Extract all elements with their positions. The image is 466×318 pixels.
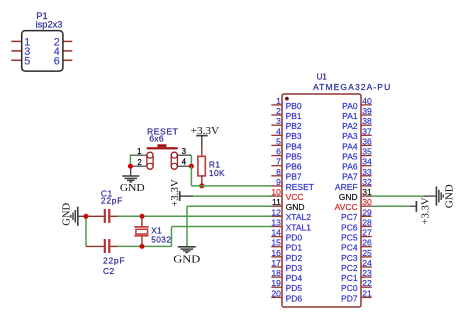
svg-text:16: 16 — [271, 248, 281, 258]
svg-text:PD6: PD6 — [286, 293, 303, 303]
svg-text:PA4: PA4 — [342, 141, 358, 151]
svg-text:PD5: PD5 — [286, 283, 303, 293]
svg-text:22: 22 — [362, 278, 372, 288]
svg-text:PC7: PC7 — [341, 212, 358, 222]
svg-text:PD1: PD1 — [286, 243, 303, 253]
svg-text:AREF: AREF — [335, 182, 358, 192]
svg-text:PA6: PA6 — [342, 162, 358, 172]
svg-text:GND: GND — [445, 184, 456, 209]
svg-text:1: 1 — [276, 96, 281, 106]
svg-text:PC6: PC6 — [341, 222, 358, 232]
svg-text:39: 39 — [362, 106, 372, 116]
svg-text:3: 3 — [276, 116, 281, 126]
svg-text:21: 21 — [362, 288, 372, 298]
svg-text:AVCC: AVCC — [335, 202, 358, 212]
svg-text:10K: 10K — [209, 168, 225, 178]
svg-text:29: 29 — [362, 207, 372, 217]
svg-text:PB1: PB1 — [286, 111, 302, 121]
svg-text:9: 9 — [276, 177, 281, 187]
svg-text:20: 20 — [271, 288, 281, 298]
svg-text:PB5: PB5 — [286, 152, 302, 162]
svg-text:+3.3V: +3.3V — [420, 197, 431, 225]
svg-text:13: 13 — [271, 218, 281, 228]
svg-text:PC2: PC2 — [341, 263, 358, 273]
svg-text:PD7: PD7 — [341, 293, 358, 303]
svg-text:PB7: PB7 — [286, 172, 302, 182]
svg-text:GND: GND — [339, 192, 358, 202]
svg-text:6x6: 6x6 — [149, 133, 164, 143]
svg-text:PD0: PD0 — [286, 233, 303, 243]
svg-text:PC1: PC1 — [341, 273, 358, 283]
svg-text:14: 14 — [271, 228, 281, 238]
svg-text:40: 40 — [362, 96, 372, 106]
svg-text:36: 36 — [362, 136, 372, 146]
svg-text:PB2: PB2 — [286, 121, 302, 131]
svg-text:XTAL1: XTAL1 — [286, 222, 312, 232]
svg-text:18: 18 — [271, 268, 281, 278]
svg-text:2: 2 — [276, 106, 281, 116]
svg-text:28: 28 — [362, 218, 372, 228]
svg-text:PD2: PD2 — [286, 253, 303, 263]
svg-text:38: 38 — [362, 116, 372, 126]
svg-text:ATMEGA32A-PU: ATMEGA32A-PU — [313, 82, 391, 92]
svg-text:33: 33 — [362, 167, 372, 177]
svg-text:2: 2 — [137, 158, 142, 167]
svg-text:22pF: 22pF — [103, 255, 125, 265]
svg-text:+3.3V: +3.3V — [170, 179, 181, 207]
svg-text:5: 5 — [276, 136, 281, 146]
svg-text:31: 31 — [362, 187, 372, 197]
svg-text:PB6: PB6 — [286, 162, 302, 172]
svg-text:GND: GND — [173, 255, 200, 266]
svg-text:XTAL2: XTAL2 — [286, 212, 312, 222]
svg-text:U1: U1 — [317, 73, 328, 82]
svg-text:PC5: PC5 — [341, 233, 358, 243]
svg-text:PD4: PD4 — [286, 273, 303, 283]
svg-text:GND: GND — [61, 202, 72, 226]
svg-text:32: 32 — [362, 177, 372, 187]
svg-text:12: 12 — [271, 207, 281, 217]
svg-text:17: 17 — [271, 258, 281, 268]
svg-text:4: 4 — [276, 126, 281, 136]
svg-text:6: 6 — [276, 147, 281, 157]
svg-text:25: 25 — [362, 248, 372, 258]
svg-text:19: 19 — [271, 278, 281, 288]
svg-text:11: 11 — [272, 197, 281, 207]
svg-text:8: 8 — [276, 167, 281, 177]
svg-text:GND: GND — [286, 202, 305, 212]
svg-text:PB3: PB3 — [286, 131, 302, 141]
svg-text:PB0: PB0 — [286, 101, 302, 111]
svg-text:PB4: PB4 — [286, 141, 302, 151]
svg-text:7: 7 — [276, 157, 281, 167]
svg-text:4: 4 — [182, 157, 187, 166]
svg-text:RESET: RESET — [286, 182, 314, 192]
svg-text:15: 15 — [271, 238, 281, 248]
svg-text:C2: C2 — [103, 266, 115, 276]
svg-text:35: 35 — [362, 147, 372, 157]
svg-text:PC4: PC4 — [341, 243, 358, 253]
svg-text:24: 24 — [362, 258, 372, 268]
svg-text:PA3: PA3 — [342, 131, 358, 141]
svg-text:VCC: VCC — [286, 192, 304, 202]
svg-text:PA7: PA7 — [342, 172, 358, 182]
svg-text:10: 10 — [271, 187, 281, 197]
svg-text:37: 37 — [362, 126, 372, 136]
svg-text:PA5: PA5 — [342, 152, 358, 162]
svg-text:34: 34 — [362, 157, 372, 167]
svg-text:1: 1 — [137, 147, 142, 156]
svg-text:30: 30 — [362, 197, 372, 207]
svg-text:6: 6 — [54, 55, 60, 67]
svg-text:5032: 5032 — [151, 235, 171, 245]
svg-text:isp2x3: isp2x3 — [36, 20, 63, 30]
svg-text:3: 3 — [182, 147, 187, 156]
svg-text:22pF: 22pF — [101, 195, 123, 205]
svg-text:5: 5 — [24, 55, 30, 67]
svg-text:PC3: PC3 — [341, 253, 358, 263]
svg-text:23: 23 — [362, 268, 372, 278]
svg-text:PD3: PD3 — [286, 263, 303, 273]
svg-text:27: 27 — [362, 228, 372, 238]
svg-text:PA2: PA2 — [342, 121, 358, 131]
svg-text:PA0: PA0 — [342, 101, 358, 111]
svg-text:GND: GND — [120, 183, 145, 194]
svg-text:PA1: PA1 — [342, 111, 358, 121]
svg-text:26: 26 — [362, 238, 372, 248]
svg-text:PC0: PC0 — [341, 283, 358, 293]
